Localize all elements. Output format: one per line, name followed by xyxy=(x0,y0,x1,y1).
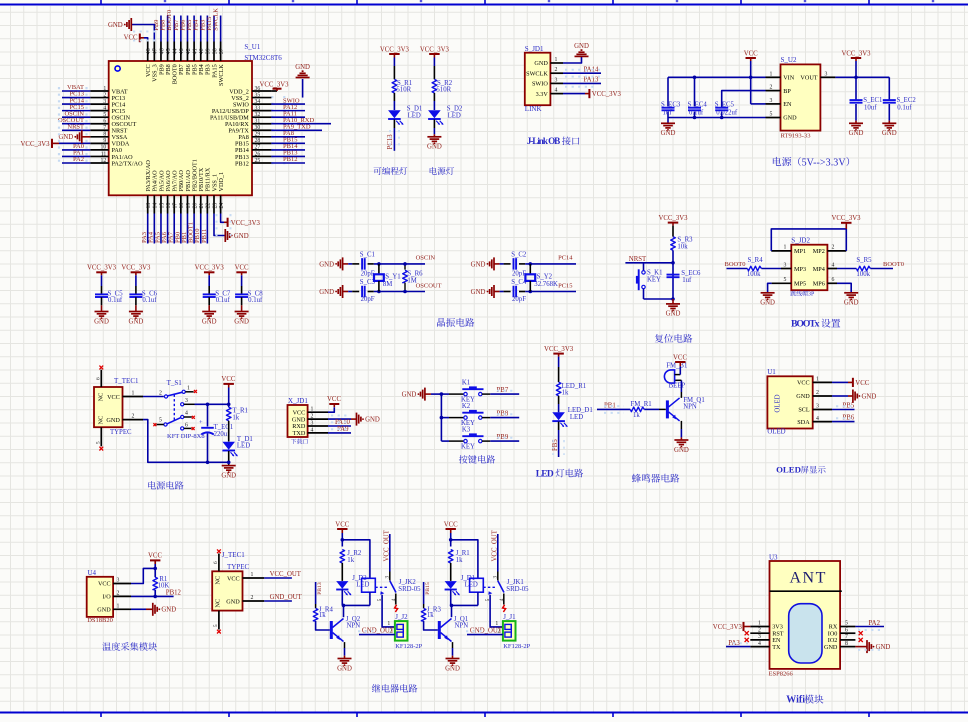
svg-text:PB12: PB12 xyxy=(283,156,297,163)
svg-text:47: 47 xyxy=(153,48,159,54)
wire pin4 PA3 xyxy=(726,646,750,648)
wire xyxy=(855,61,857,77)
wire VCC to VIN and EN xyxy=(668,61,766,104)
power port VCC_3V3 xyxy=(21,139,59,148)
svg-text:GND: GND xyxy=(97,607,111,614)
svg-text:3: 3 xyxy=(311,420,314,426)
wire xyxy=(450,590,452,606)
svg-text:VCC_3V3: VCC_3V3 xyxy=(87,265,117,272)
LED T_D1 xyxy=(222,436,252,457)
wire to GND xyxy=(671,297,675,303)
svg-text:GND_OUT: GND_OUT xyxy=(470,627,503,634)
svg-text:100k: 100k xyxy=(747,271,761,278)
wire relay common xyxy=(493,534,499,581)
svg-text:GND: GND xyxy=(202,318,217,325)
capacitor T_EC1 220uf xyxy=(199,404,233,462)
push button K1 xyxy=(441,379,490,403)
ground xyxy=(357,413,380,426)
caption jing-zhen-dian-lu xyxy=(437,318,445,327)
no-connect X xyxy=(745,638,749,642)
caption OLED ping-xian-shi xyxy=(776,465,826,475)
wire xyxy=(837,268,856,270)
svg-text:45: 45 xyxy=(166,48,172,54)
power port VCC_3V3 at VDD_2 xyxy=(259,82,289,91)
svg-text:2: 2 xyxy=(251,595,254,601)
resistor J_R3 xyxy=(421,606,441,621)
svg-text:TYPEC: TYPEC xyxy=(110,429,132,436)
svg-text:PC15: PC15 xyxy=(558,282,572,289)
capacitor S_EC5 xyxy=(715,101,738,117)
svg-text:20: 20 xyxy=(192,203,198,209)
wire xyxy=(341,590,343,606)
svg-text:S_D1: S_D1 xyxy=(407,106,423,113)
svg-text:S_C2: S_C2 xyxy=(511,252,527,259)
ground xyxy=(58,130,81,143)
svg-text:3: 3 xyxy=(825,71,828,77)
capacitor S_C6 xyxy=(129,275,157,311)
svg-text:16: 16 xyxy=(166,203,172,209)
caption an-jian-dian-lu xyxy=(459,455,468,463)
resistor S_R4 xyxy=(747,257,763,278)
wire VSS_3 to GND xyxy=(131,25,154,42)
wire pin6 to GND xyxy=(837,283,851,292)
svg-text:VCC_3V3: VCC_3V3 xyxy=(121,265,151,272)
svg-text:DS18B20: DS18B20 xyxy=(87,617,113,624)
svg-text:BEEP: BEEP xyxy=(669,382,686,389)
power port VCC xyxy=(148,553,162,565)
svg-text:ANT: ANT xyxy=(790,570,827,587)
no-connect X xyxy=(99,366,103,370)
caption BOOTx she-zhi xyxy=(791,319,840,330)
svg-text:100k: 100k xyxy=(856,271,870,278)
svg-text:S_JD2: S_JD2 xyxy=(791,237,810,245)
svg-text:S_R5: S_R5 xyxy=(856,257,872,264)
wire xyxy=(597,408,630,410)
svg-text:TX: TX xyxy=(772,644,781,651)
ground xyxy=(445,659,460,673)
svg-text:SRD-05: SRD-05 xyxy=(398,586,421,593)
svg-text:TXD: TXD xyxy=(293,430,306,437)
wire pin5 PA2 xyxy=(855,626,884,628)
svg-text:GND: GND xyxy=(319,261,334,268)
svg-text:SDA: SDA xyxy=(797,419,810,426)
svg-text:5: 5 xyxy=(159,418,162,424)
ground xyxy=(760,293,775,307)
svg-text:GND: GND xyxy=(234,318,249,325)
power port VCC xyxy=(744,51,758,62)
svg-text:1: 1 xyxy=(311,407,314,413)
svg-text:GND: GND xyxy=(226,598,240,605)
svg-text:0.022uf: 0.022uf xyxy=(716,110,738,117)
connector X_JD1 download xyxy=(288,397,329,444)
ground xyxy=(471,285,494,298)
ground xyxy=(867,640,890,653)
wire xyxy=(154,590,156,597)
svg-text:MP6: MP6 xyxy=(813,281,825,288)
wire emitter to GND xyxy=(452,642,454,658)
no-connect X xyxy=(192,416,195,419)
svg-text:2: 2 xyxy=(311,414,314,420)
no-connect X xyxy=(217,630,221,634)
no-connect X xyxy=(194,390,197,393)
ground xyxy=(427,137,442,151)
svg-text:0.1uf: 0.1uf xyxy=(689,110,704,117)
svg-text:3.3V: 3.3V xyxy=(536,91,549,98)
svg-text:20pF: 20pF xyxy=(361,296,375,303)
wire key ground rail xyxy=(431,392,443,441)
svg-text:1: 1 xyxy=(187,386,190,392)
svg-text:2: 2 xyxy=(117,591,120,597)
wire emitter to GND xyxy=(680,421,682,440)
svg-text:18: 18 xyxy=(179,203,185,209)
svg-text:GND: GND xyxy=(108,22,123,29)
svg-text:1k: 1k xyxy=(456,557,463,564)
svg-text:4: 4 xyxy=(816,416,819,422)
svg-text:+: + xyxy=(199,419,203,426)
svg-text:RT9193-33: RT9193-33 xyxy=(781,133,812,140)
svg-text:SWCLK: SWCLK xyxy=(218,64,225,86)
capacitor S_EC4 xyxy=(688,77,708,117)
svg-text:STM32C8T6: STM32C8T6 xyxy=(244,54,282,62)
connector J_TEC1 TYPEC xyxy=(212,551,264,629)
svg-text:PC13: PC13 xyxy=(387,134,394,150)
svg-text:510R: 510R xyxy=(436,87,451,94)
wire xyxy=(393,93,395,101)
svg-text:2: 2 xyxy=(159,391,162,397)
svg-text:BOOT0: BOOT0 xyxy=(883,261,904,268)
svg-text:6: 6 xyxy=(213,561,219,564)
svg-text:S_D2: S_D2 xyxy=(447,106,463,113)
svg-text:1k: 1k xyxy=(232,414,239,421)
wire pin1 to switch xyxy=(143,396,164,398)
svg-text:J_J2: J_J2 xyxy=(395,613,408,621)
svg-text:PA2/TX/AO: PA2/TX/AO xyxy=(112,160,144,167)
svg-text:KF128-2P: KF128-2P xyxy=(395,643,422,650)
regulator S_U2 RT9193-33 xyxy=(766,56,836,140)
resistor S_R1 xyxy=(392,79,412,93)
caption dian-yuan-deng xyxy=(430,167,437,175)
svg-text:GND: GND xyxy=(574,43,589,50)
svg-text:KEY: KEY xyxy=(647,277,661,284)
resistor LED_R1 xyxy=(556,382,586,396)
capacitor S_C8 xyxy=(235,275,263,311)
wifi module U3 ESP8266 xyxy=(750,554,855,678)
svg-text:BOOTx: BOOTx xyxy=(791,319,820,330)
svg-text:40: 40 xyxy=(199,48,205,54)
svg-text:5: 5 xyxy=(96,441,102,444)
svg-text:1: 1 xyxy=(555,57,558,63)
svg-text:NPN: NPN xyxy=(347,623,361,630)
svg-text:S_EC3: S_EC3 xyxy=(661,101,681,108)
svg-text:6: 6 xyxy=(832,277,835,283)
ground xyxy=(153,603,176,616)
svg-text:10k: 10k xyxy=(677,243,688,250)
svg-text:S_EC1: S_EC1 xyxy=(863,97,882,104)
svg-text:4: 4 xyxy=(311,427,314,433)
svg-text:OLED: OLED xyxy=(767,429,785,436)
mcu S_U1 STM32C8T6 xyxy=(109,43,283,195)
wire xyxy=(450,563,452,581)
capacitor S_C1 xyxy=(360,252,375,278)
wire bottom row xyxy=(343,290,425,294)
svg-text:GND: GND xyxy=(760,300,775,307)
power port VCC_3V3 xyxy=(658,215,688,226)
svg-text:PC14: PC14 xyxy=(558,255,573,262)
svg-text:LED: LED xyxy=(356,581,369,588)
svg-text:TYPEC: TYPEC xyxy=(227,563,250,571)
ground xyxy=(661,123,676,137)
svg-text:GND_OUT: GND_OUT xyxy=(270,594,303,601)
svg-text:SWCLK: SWCLK xyxy=(526,70,548,77)
svg-text:21: 21 xyxy=(199,203,205,209)
svg-text:0.1uf: 0.1uf xyxy=(248,297,263,304)
svg-text:1: 1 xyxy=(132,390,135,396)
svg-text:VCC: VCC xyxy=(855,380,869,387)
power port VCC xyxy=(335,522,349,533)
svg-text:1: 1 xyxy=(117,604,120,610)
LED J_D1 xyxy=(445,575,478,596)
svg-text:6: 6 xyxy=(845,627,848,633)
wire VDD_1 to VCC_3V3 xyxy=(221,214,261,227)
wire VSS_2 to GND xyxy=(302,79,304,98)
svg-text:GND: GND xyxy=(402,392,417,399)
svg-text:VCC: VCC xyxy=(98,581,111,588)
wire pin4 VCC_3V3 xyxy=(563,93,585,95)
caption dian-yuan 5V to 3.3V xyxy=(773,157,849,168)
wire xyxy=(393,58,395,67)
svg-text:NPN: NPN xyxy=(683,404,697,411)
buzzer FM_B1 BEEP xyxy=(664,363,687,390)
capacitor S_EC3 xyxy=(661,77,681,117)
terminal block J_J1 KF128-2P xyxy=(495,613,530,650)
svg-text:GND: GND xyxy=(94,318,109,325)
wire to PB7 xyxy=(490,393,519,395)
wire pin4 PB6 xyxy=(832,421,855,423)
wire throw to terminal xyxy=(490,595,503,627)
svg-text:3P: 3P xyxy=(808,292,815,298)
svg-text:BP: BP xyxy=(783,88,791,95)
wire to base xyxy=(424,621,438,630)
svg-text:J-Link OB: J-Link OB xyxy=(527,136,561,146)
svg-text:VCC: VCC xyxy=(221,376,235,383)
wire VCC to coil xyxy=(449,533,478,578)
relay contact J_JK1 SRD-05 xyxy=(483,579,529,604)
wire NRST node xyxy=(625,250,674,299)
svg-text:1: 1 xyxy=(784,245,787,251)
wire xyxy=(558,396,560,413)
ground xyxy=(225,229,248,242)
svg-text:S_EC4: S_EC4 xyxy=(688,101,708,108)
svg-text:GND_OUT: GND_OUT xyxy=(362,627,395,634)
svg-text:PA2: PA2 xyxy=(869,620,881,627)
capacitor S_C5 xyxy=(95,275,123,311)
caption feng-ming-qi-dian-lu xyxy=(632,474,641,483)
capacitor S_C2 xyxy=(511,252,527,278)
svg-text:VCC_3V3: VCC_3V3 xyxy=(841,51,871,58)
svg-text:19: 19 xyxy=(186,203,192,209)
capacitor S_EC1 xyxy=(850,77,883,123)
svg-text:VOUT: VOUT xyxy=(800,75,817,82)
ground xyxy=(319,285,342,298)
wire pin3 PA13 xyxy=(563,82,601,84)
svg-text:T_EC1: T_EC1 xyxy=(214,424,234,431)
svg-text:NC: NC xyxy=(97,416,104,425)
no-connect mark xyxy=(503,605,506,612)
push button K2 xyxy=(441,403,490,427)
wire pin5 to GND xyxy=(768,283,772,292)
svg-text:PB12: PB12 xyxy=(166,590,182,597)
no-connect X xyxy=(99,447,103,451)
svg-text:GND: GND xyxy=(365,417,380,424)
svg-text:1: 1 xyxy=(251,572,254,578)
wire to PB8 xyxy=(490,417,519,419)
svg-text:1: 1 xyxy=(816,377,819,383)
svg-text:VCC: VCC xyxy=(148,553,162,560)
svg-text:3: 3 xyxy=(185,398,188,404)
wire pin VCC loop xyxy=(131,567,157,584)
svg-text:22: 22 xyxy=(206,203,212,209)
power port VCC_3V3 xyxy=(380,46,410,57)
mcu pin names and numbers xyxy=(101,86,261,167)
svg-text:GND: GND xyxy=(844,300,859,307)
svg-text:GND: GND xyxy=(221,472,236,479)
svg-text:GND: GND xyxy=(666,311,681,318)
ground xyxy=(234,312,249,326)
wire pin8 to GND xyxy=(855,646,867,648)
svg-text:VCC_3V3: VCC_3V3 xyxy=(658,215,688,222)
LED LED_D1 xyxy=(552,407,592,427)
svg-text:MP4: MP4 xyxy=(813,266,825,273)
svg-text:3: 3 xyxy=(758,634,761,640)
svg-text:44: 44 xyxy=(173,48,179,54)
svg-text:K2: K2 xyxy=(462,403,471,410)
resistor S_R6 xyxy=(403,262,423,293)
svg-text:GND: GND xyxy=(534,60,548,67)
no-connect X xyxy=(217,549,221,553)
svg-text:MP3: MP3 xyxy=(794,266,806,273)
svg-text:3: 3 xyxy=(784,262,787,268)
wire pin2 to GND xyxy=(832,395,853,397)
svg-text:GND: GND xyxy=(882,130,897,137)
svg-text:5: 5 xyxy=(213,624,219,627)
svg-text:GND: GND xyxy=(471,289,486,296)
power port VCC_3V3 xyxy=(713,622,750,631)
wire xyxy=(433,58,435,67)
wire pin4 PA9 xyxy=(328,432,351,434)
svg-text:VCC: VCC xyxy=(444,522,458,529)
wire xyxy=(341,563,343,581)
mcu bottom pins 13-24 xyxy=(145,159,225,243)
capacitor S_EC6 xyxy=(667,270,702,284)
mcu right pins 25-36 wires xyxy=(252,91,331,163)
wire to net PC13 xyxy=(393,120,395,129)
svg-text:1: 1 xyxy=(495,621,498,627)
resistor FM_R1 xyxy=(630,401,651,419)
wire xyxy=(433,120,435,129)
wire top row xyxy=(343,262,425,266)
oled module U1 xyxy=(767,368,832,435)
svg-text:Wifi: Wifi xyxy=(786,695,805,706)
wire GND_OUT to terminal xyxy=(467,634,503,636)
svg-text:S_R4: S_R4 xyxy=(748,257,764,264)
power port VCC_3V3 xyxy=(195,265,225,276)
ground xyxy=(471,257,494,270)
wire pin GND xyxy=(131,608,153,610)
svg-text:7: 7 xyxy=(845,634,848,640)
svg-text:23: 23 xyxy=(212,203,218,209)
svg-text:10K: 10K xyxy=(158,583,170,590)
svg-text:K1: K1 xyxy=(462,379,470,386)
svg-text:510R: 510R xyxy=(396,87,411,94)
wire pin2 to GND xyxy=(328,418,357,420)
svg-text:OLED: OLED xyxy=(776,465,801,475)
svg-text:GND: GND xyxy=(849,130,864,137)
svg-text:GND: GND xyxy=(471,261,486,268)
wire top row xyxy=(494,262,576,266)
svg-text:GND: GND xyxy=(337,665,352,672)
caption Wifi mo-kuai xyxy=(786,695,823,706)
svg-text:48: 48 xyxy=(146,48,152,54)
svg-text:GND: GND xyxy=(445,665,460,672)
caption fu-wei-dian-lu xyxy=(655,334,664,343)
wire BP to EC5 xyxy=(722,91,766,107)
no-connect X xyxy=(745,631,749,635)
svg-text:1k: 1k xyxy=(347,557,354,564)
svg-text:PB13: PB13 xyxy=(317,582,323,595)
resistor S_R3 xyxy=(671,237,693,251)
relay contact J_JK2 SRD-05 xyxy=(375,579,421,604)
svg-text:PB12: PB12 xyxy=(235,160,249,167)
capacitor S_C4 xyxy=(511,279,527,303)
wire to GND xyxy=(667,118,669,124)
svg-text:LED: LED xyxy=(448,113,461,120)
svg-text:ESP8266: ESP8266 xyxy=(769,670,794,677)
ground xyxy=(849,123,864,137)
mcu bottom net labels xyxy=(141,222,208,243)
wire pin1 VCC_OUT xyxy=(264,577,292,579)
svg-text:MP5: MP5 xyxy=(794,281,806,288)
capacitor S_C3 xyxy=(360,279,376,303)
wire xyxy=(870,268,893,270)
svg-text:20pF: 20pF xyxy=(361,271,375,278)
svg-text:U1: U1 xyxy=(767,368,776,376)
switch T_S1 KFT DIP-8X8 xyxy=(157,379,205,440)
svg-text:VCC: VCC xyxy=(235,265,249,272)
svg-text:3: 3 xyxy=(816,404,819,410)
svg-text:2: 2 xyxy=(832,245,835,251)
no-connect X xyxy=(192,427,195,430)
power port VCC_3V3 xyxy=(831,215,861,229)
power port VCC_3V3 xyxy=(420,46,450,57)
svg-text:OLED: OLED xyxy=(774,394,781,412)
svg-text:OSCOUT: OSCOUT xyxy=(416,282,442,289)
svg-text:MP2: MP2 xyxy=(813,248,825,255)
svg-text:4: 4 xyxy=(555,88,558,94)
svg-text:220uf: 220uf xyxy=(214,431,231,438)
svg-text:3: 3 xyxy=(117,578,120,584)
svg-text:0.1uf: 0.1uf xyxy=(108,297,123,304)
wire pin2 GND_OUT xyxy=(264,600,292,602)
svg-text:NRST: NRST xyxy=(629,256,647,263)
wire relay common xyxy=(385,534,391,581)
svg-text:GND: GND xyxy=(783,115,797,122)
svg-text:MP1: MP1 xyxy=(794,248,806,255)
svg-text:42: 42 xyxy=(186,48,192,54)
svg-text:VDD_1: VDD_1 xyxy=(218,172,225,192)
svg-text:PA13: PA13 xyxy=(584,77,599,84)
crystal S_Y1 xyxy=(374,264,401,292)
power port VCC xyxy=(235,265,249,276)
